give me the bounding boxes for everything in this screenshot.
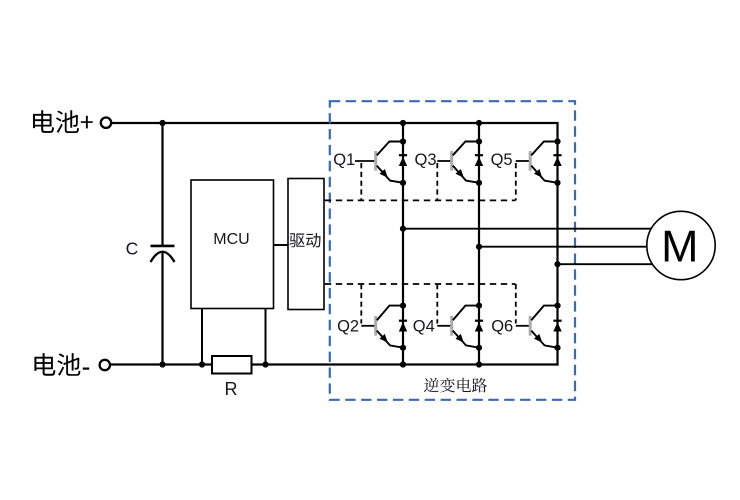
svg-text:Q6: Q6 [491, 317, 513, 335]
node leg 2 bottom rail [476, 361, 482, 367]
driver block (驱动) [288, 179, 324, 310]
node leg 1 bottom rail [400, 361, 406, 367]
transistor Q1 [355, 142, 403, 183]
capacitor C [151, 246, 175, 262]
transistor Q5 [516, 142, 558, 183]
node phase U [400, 226, 406, 232]
node Q4 collector [476, 303, 482, 309]
transistor Q3 [437, 142, 479, 183]
wire DC+ rail [112, 122, 559, 124]
wire MCU sense pin left [201, 309, 203, 365]
node leg 2 top rail [476, 120, 482, 126]
label inverter circuit (逆变电路) [424, 378, 487, 393]
svg-text:C: C [126, 238, 139, 258]
node Q5 collector [554, 138, 560, 144]
node Q4 emitter [476, 345, 482, 351]
node Q2 emitter [400, 345, 406, 351]
wire capacitor bottom lead [161, 252, 163, 365]
wire gate drop Q5 (dashed) [515, 163, 517, 200]
resistor R (shunt) [212, 356, 252, 399]
wire phase W to motor [558, 263, 682, 265]
label battery- (电池-) [34, 353, 89, 376]
node sense right [262, 361, 268, 367]
node Q6 emitter [554, 345, 560, 351]
wire inverter leg 1 [402, 123, 404, 365]
node phase W [554, 261, 560, 267]
wire DC- rail [111, 363, 559, 365]
node phase V [476, 244, 482, 250]
node Q6 collector [554, 303, 560, 309]
wire MCU to driver [274, 244, 289, 246]
wire gate drop Q6 (dashed) [515, 284, 517, 324]
inverter enclosure (blue dashed) [330, 101, 575, 400]
node Q1 collector [400, 138, 406, 144]
terminal battery- [100, 360, 110, 370]
node sense left [199, 361, 205, 367]
terminal battery+ [101, 118, 111, 128]
diode antiparallel with Q6 [553, 321, 561, 332]
wire inverter leg 3 [556, 123, 558, 365]
wire gate drop Q2 (dashed) [360, 284, 362, 324]
node Q2 collector [400, 303, 406, 309]
svg-text:R: R [225, 379, 238, 399]
wire phase U to motor [403, 228, 681, 230]
svg-text:Q5: Q5 [491, 151, 513, 169]
wire MCU sense pin right [265, 309, 267, 365]
node Q3 emitter [476, 180, 482, 186]
node Q3 collector [476, 138, 482, 144]
svg-text:M: M [661, 221, 698, 271]
svg-text:Q2: Q2 [337, 317, 359, 335]
wire gate drop Q4 (dashed) [436, 284, 438, 324]
wire phase V to motor [479, 246, 681, 248]
transistor Q4 [437, 306, 479, 348]
MCU block [191, 180, 274, 309]
node Q5 emitter [554, 180, 560, 186]
wire inverter leg 2 [478, 123, 480, 365]
diode antiparallel with Q5 [553, 155, 561, 166]
diode antiparallel with Q4 [475, 321, 483, 332]
transistor Q6 [516, 306, 558, 348]
wire gate drop Q3 (dashed) [436, 163, 438, 200]
wire gate drop Q1 (dashed) [360, 163, 362, 200]
node Q1 emitter [400, 180, 406, 186]
transistor Q2 [361, 306, 403, 348]
svg-text:MCU: MCU [213, 231, 249, 248]
diode antiparallel with Q1 [399, 155, 407, 166]
diode antiparallel with Q2 [399, 321, 407, 332]
node leg 1 top rail [400, 120, 406, 126]
motor M [647, 211, 715, 279]
svg-text:Q3: Q3 [415, 151, 437, 169]
wire capacitor top lead [161, 123, 163, 245]
svg-text:Q1: Q1 [333, 151, 355, 169]
node capacitor bottom [159, 361, 165, 367]
wire gate bus top (dashed) [325, 199, 516, 201]
node DC+ / capacitor tap [159, 120, 165, 126]
wire gate bus bottom (dashed) [325, 283, 516, 285]
diode antiparallel with Q3 [475, 155, 483, 166]
svg-text:Q4: Q4 [413, 317, 435, 335]
label battery+ (电池+) [33, 110, 93, 133]
